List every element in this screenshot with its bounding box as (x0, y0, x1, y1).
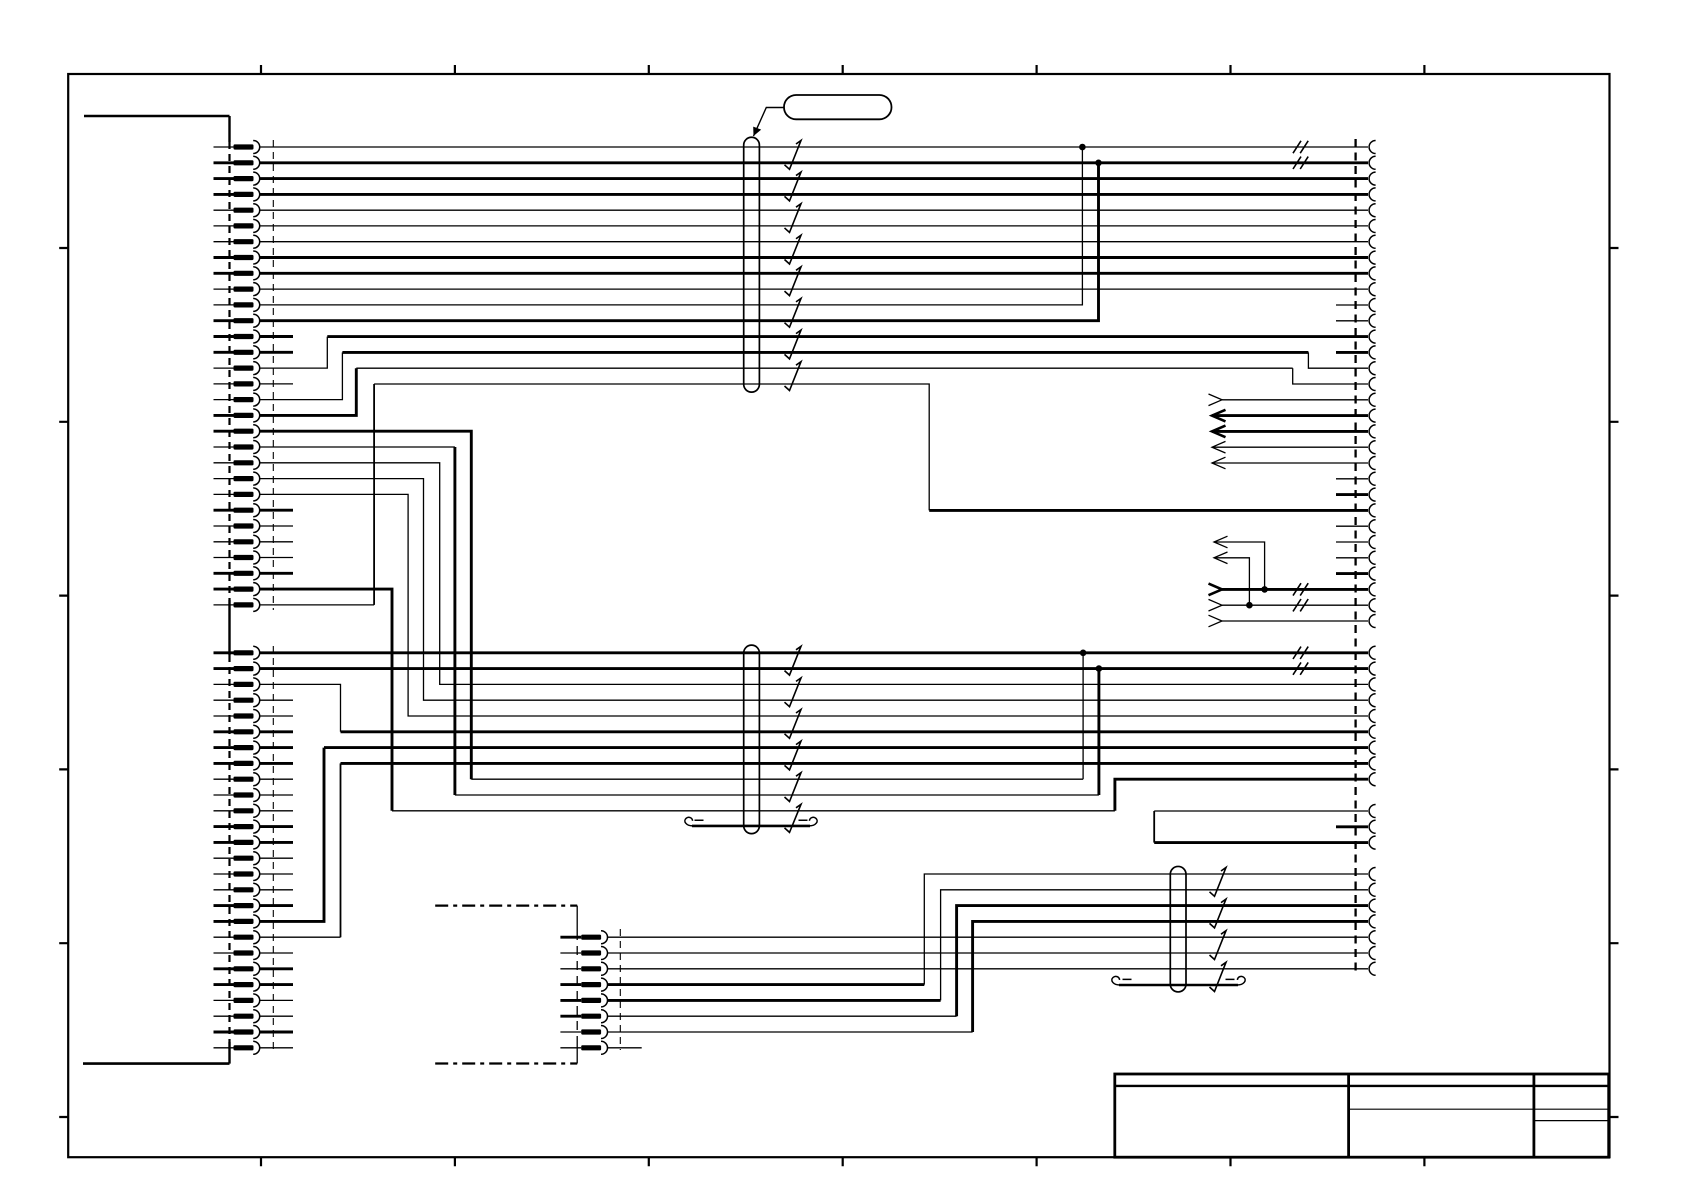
inner connector P3 contact line (dashed) (619, 929, 621, 1050)
right connector J2 contact A30 (1369, 599, 1376, 612)
wire (608, 983, 924, 986)
right connector J2 contact line (dashed) (1354, 139, 1356, 976)
wire (327, 335, 1368, 338)
twisted pair mark (785, 235, 802, 264)
left connector J1 pin 46 (214, 883, 260, 896)
off-page arrow (1212, 441, 1226, 453)
left connector J1 pin 54 (214, 1010, 260, 1023)
wire (1212, 430, 1368, 433)
left connector J1 pin 35 (214, 710, 260, 723)
shield box (dash-dot outline) (435, 906, 577, 1064)
wire (453, 447, 456, 795)
wire stub (260, 715, 293, 717)
left connector J1 pin 3 (214, 172, 260, 185)
wire (260, 936, 341, 938)
right connector J2 contact B6 (1369, 725, 1376, 738)
right connector J2 contact A25 (1369, 520, 1376, 533)
right connector J2 contact A16 (1369, 378, 1376, 391)
right connector J2 contact D1 (1369, 868, 1376, 881)
wire (1222, 588, 1368, 591)
right connector J2 contact A10 (1369, 283, 1376, 296)
cable label flag (784, 95, 892, 119)
wire (1153, 811, 1155, 843)
wire (1308, 352, 1368, 368)
wire (1222, 620, 1368, 622)
crossing mark (1293, 141, 1308, 153)
left connector J1 pin 6 (214, 219, 260, 232)
wire stub (260, 889, 293, 891)
left connector J1 pin 53 (214, 994, 260, 1007)
wire stub (260, 857, 293, 859)
right connector J2 contact A4 (1369, 188, 1376, 201)
right connector J2 contact A13 (1369, 330, 1376, 343)
wire (1154, 841, 1368, 844)
wire (260, 147, 1082, 305)
wire stub (260, 1047, 293, 1049)
wire (260, 272, 1368, 275)
wire (260, 479, 1368, 701)
wire (260, 225, 1368, 227)
left connector J1 pin 33 (214, 678, 260, 691)
right connector J2 contact A17 (1369, 393, 1376, 406)
twisted pair mark (785, 710, 802, 739)
left connector J1 pin 40 (214, 789, 260, 802)
wire stub (1336, 825, 1368, 828)
twisted pair mark (785, 741, 802, 770)
wire (608, 999, 941, 1002)
left connector J1 pin 25 (214, 520, 260, 533)
off-page arrow (1209, 599, 1223, 611)
inner connector P3 pin 8 (560, 1041, 607, 1054)
off-page arrow (1209, 615, 1223, 627)
wire stub (260, 572, 293, 575)
wire (260, 241, 1368, 243)
wire stub (260, 730, 293, 733)
wire (342, 351, 1308, 354)
wire (1214, 542, 1265, 589)
left connector J1 pin 48 (214, 915, 260, 928)
twisted pair mark (1210, 868, 1227, 897)
title block (1115, 1074, 1609, 1157)
wire stub (260, 746, 293, 749)
left connector J1 pin 12 (214, 314, 260, 327)
wire stub (260, 952, 293, 954)
junction (1096, 665, 1103, 672)
wire (260, 337, 327, 369)
left connector J1 pin 50 (214, 947, 260, 960)
wire stub (260, 794, 293, 796)
right connector J2 contact A15 (1369, 362, 1376, 375)
left connector J1 pin 55 (214, 1026, 260, 1039)
right connector J2 contact C3 (1369, 836, 1376, 849)
wire (260, 256, 1368, 259)
wire (260, 748, 324, 922)
off-page arrow (1214, 552, 1228, 564)
right connector J2 contact A21 (1369, 457, 1376, 470)
right connector J2 contact A27 (1369, 551, 1376, 564)
wire (260, 431, 471, 779)
left connector J1 pin 56 (214, 1041, 260, 1054)
right connector J2 contact B8 (1369, 757, 1376, 770)
wire (260, 667, 1368, 670)
right connector J2 contact A31 (1369, 615, 1376, 628)
wire stub (260, 904, 293, 907)
left connector J1 pin 37 (214, 741, 260, 754)
wire (260, 463, 1368, 685)
wire stub (1336, 351, 1368, 354)
wire (260, 368, 356, 415)
junction (1079, 144, 1086, 151)
right connector J2 contact A11 (1369, 299, 1376, 312)
left connector J1 pin 15 (214, 362, 260, 375)
cable bundle loop (middle) (744, 645, 760, 834)
wire (341, 730, 1369, 733)
wire (260, 146, 1368, 148)
right connector J2 contact C1 (1369, 805, 1376, 818)
left connector J1 pin 19 (214, 425, 260, 438)
wire (260, 163, 1099, 321)
wire stub (260, 351, 293, 354)
wire (356, 367, 1292, 369)
right connector J2 contact B1 (1369, 646, 1376, 659)
wire (1154, 810, 1368, 812)
twisted pair mark (1210, 931, 1227, 960)
left connector J1 pin 38 (214, 757, 260, 770)
right connector J2 contact C2 (1369, 820, 1375, 833)
left connector J1 pin 41 (214, 804, 260, 817)
wire stub (1336, 320, 1368, 322)
wire stub (260, 1015, 293, 1017)
wire (260, 494, 1368, 716)
right connector J2 contact A2 (1369, 156, 1376, 169)
left connector J1 body (83, 116, 230, 1064)
twisted pair mark (785, 646, 802, 675)
left connector J1 pin 52 (214, 978, 260, 991)
off-page arrow (1212, 410, 1226, 422)
right connector J2 contact D5 (1369, 931, 1376, 944)
cable clamp bar (middle) (685, 817, 817, 826)
left connector J1 pin 45 (214, 868, 260, 881)
wire (260, 604, 374, 606)
twisted pair mark (785, 773, 802, 802)
right connector J2 contact A18 (1369, 409, 1375, 422)
left connector J1 pin 39 (214, 773, 260, 786)
wire stub (260, 810, 293, 812)
right connector J2 contact B5 (1369, 710, 1376, 723)
wire stub (260, 983, 293, 986)
inner connector P3 pin 5 (560, 994, 607, 1007)
left connector J1 pin 27 (214, 551, 260, 564)
right connector J2 contact A28 (1369, 567, 1376, 580)
wire stub (260, 841, 293, 844)
wire (608, 936, 1368, 938)
wire (1115, 779, 1368, 811)
left connector J1 pin 21 (214, 456, 260, 469)
off-page arrow (1212, 426, 1226, 438)
wire (260, 589, 392, 811)
label leader arrow (753, 108, 784, 137)
wire (1097, 669, 1100, 795)
left connector J1 pin 30 (214, 598, 260, 611)
wire (260, 651, 1368, 654)
inner connector P3 pin 2 (560, 947, 607, 960)
right connector J2 contact A19 (1369, 425, 1376, 438)
left connector J1 pin 24 (214, 504, 260, 517)
junction (1246, 602, 1253, 609)
wire (1214, 558, 1249, 605)
wire stub (1336, 572, 1368, 575)
left connector J1 pin 5 (214, 204, 260, 217)
wire (929, 509, 1368, 512)
wire (392, 810, 1115, 812)
inner connector P3 pin 7 (560, 1026, 607, 1039)
wire (1293, 368, 1368, 384)
left connector J1 pin 29 (214, 583, 260, 596)
wire stub (260, 967, 293, 970)
junction (1080, 650, 1087, 657)
wire stub (260, 509, 293, 512)
wire (1082, 653, 1084, 779)
right connector J2 contact A22 (1369, 472, 1376, 485)
wire (260, 209, 1368, 211)
right connector J2 contact B2 (1369, 662, 1376, 675)
right connector J2 contact A6 (1369, 220, 1376, 233)
wire (324, 746, 1368, 749)
wire stub (260, 999, 293, 1001)
left connector J1 pin 22 (214, 472, 260, 485)
twisted pair mark (785, 330, 802, 359)
cable clamp bar (bottom) (1112, 976, 1245, 985)
wire (973, 921, 1368, 1032)
junction (1261, 586, 1268, 593)
off-page arrow (1214, 536, 1228, 548)
right connector J2 contact D7 (1369, 962, 1376, 975)
wire stub (1336, 525, 1368, 527)
crossing mark (1293, 157, 1308, 169)
left connector J1 pin 18 (214, 409, 260, 422)
wire (260, 161, 1368, 164)
left connector J1 pin 28 (214, 567, 260, 580)
twisted pair mark (785, 267, 802, 296)
left connector J1 pin 9 (214, 267, 260, 280)
wire stub (260, 557, 293, 559)
inner connector P3 pin 4 (560, 978, 607, 991)
twisted pair mark (785, 362, 802, 391)
inner connector P3 pin 3 (560, 962, 607, 975)
wire (260, 446, 455, 448)
wire (341, 762, 1369, 765)
wire stub (1336, 478, 1368, 480)
wire stub (260, 541, 293, 543)
wire (374, 384, 929, 510)
wire (608, 1031, 973, 1033)
wire (260, 684, 341, 731)
right connector J2 contact A1 (1369, 141, 1376, 154)
wire (260, 352, 342, 399)
cable bundle loop (bottom right) (1170, 866, 1186, 992)
wire (1222, 604, 1368, 606)
right connector J2 contact B4 (1369, 694, 1376, 707)
junction (1095, 160, 1102, 167)
wire stub (260, 525, 293, 527)
left connector J1 pin 49 (214, 931, 260, 944)
wire (455, 794, 1099, 796)
wire (260, 288, 1368, 290)
wire stub (260, 699, 293, 701)
right connector J2 contact D2 (1369, 883, 1376, 896)
wire (608, 968, 1368, 970)
wire (608, 952, 1368, 954)
right connector J2 contact A29 (1369, 583, 1376, 596)
right connector J2 contact A3 (1369, 172, 1376, 185)
twisted pair mark (1210, 962, 1227, 991)
wire (260, 193, 1368, 196)
left connector J1 pin 17 (214, 393, 260, 406)
left connector J1 pin 8 (214, 251, 260, 264)
wire stub (1336, 304, 1368, 306)
wire (608, 1015, 957, 1017)
left connector J1 pin 44 (214, 852, 260, 865)
twisted pair mark (785, 678, 802, 707)
off-page arrow (1212, 457, 1226, 469)
wire stub (260, 825, 293, 828)
right connector J2 contact A14 (1369, 346, 1376, 359)
right connector J2 contact B9 (1369, 773, 1376, 786)
left connector J1 pin 14 (214, 346, 260, 359)
left connector J1 pin 51 (214, 962, 260, 975)
right connector J2 contact A5 (1369, 204, 1376, 217)
left connector J1 pin 20 (214, 441, 260, 454)
wire (471, 778, 1083, 780)
right connector J2 contact B3 (1369, 678, 1376, 691)
wire stub (260, 873, 293, 875)
wire (957, 906, 1368, 1017)
wire (1212, 462, 1368, 464)
twisted pair mark (785, 804, 802, 832)
wire (1212, 414, 1368, 417)
right connector J2 contact D3 (1369, 899, 1376, 912)
right connector J2 contact D4 (1369, 915, 1376, 928)
wire (924, 874, 1368, 985)
left connector J1 pin 26 (214, 535, 260, 548)
left connector J1 pin 2 (214, 156, 260, 169)
twisted pair mark (785, 298, 802, 327)
wire stub (260, 335, 293, 338)
wire stub (260, 762, 293, 765)
inner connector P3 pin 1 (560, 931, 607, 944)
wire (941, 890, 1368, 1001)
wire stub (260, 383, 293, 385)
right connector J2 contact A20 (1369, 441, 1376, 454)
wire (373, 384, 375, 605)
left connector J1 pin 47 (214, 899, 260, 912)
left connector J1 pin 36 (214, 725, 260, 738)
right connector J2 contact A12 (1369, 314, 1376, 327)
twisted pair mark (785, 141, 802, 170)
left connector J1 pin 1 (214, 141, 260, 154)
wire (1222, 399, 1368, 401)
right connector J2 contact B7 (1369, 741, 1376, 754)
cable bundle loop (top) (744, 137, 760, 392)
left connector J1 pin 31 (214, 646, 260, 659)
wire stub (608, 1047, 642, 1049)
left connector J1 pin 23 (214, 488, 260, 501)
right connector J2 contact A9 (1369, 267, 1376, 280)
crossing mark (1293, 662, 1308, 674)
wire (1212, 446, 1368, 448)
twisted pair mark (1210, 899, 1227, 928)
right connector J2 contact D6 (1369, 947, 1376, 960)
wire stub (260, 1031, 293, 1034)
inner connector P3 pin 6 (560, 1010, 607, 1023)
wire stub (1336, 541, 1368, 543)
left connector J1 contact line (dashed) (272, 140, 274, 1052)
left connector J1 pin 43 (214, 836, 260, 849)
right connector J2 contact A7 (1369, 235, 1376, 248)
twisted pair mark (785, 172, 802, 201)
wire (260, 177, 1368, 180)
wire stub (1336, 493, 1368, 496)
crossing mark (1293, 647, 1308, 659)
left connector J1 pin 16 (214, 377, 260, 390)
wire stub (260, 778, 293, 780)
left connector J1 pin 42 (214, 820, 260, 833)
off-page arrow (1209, 394, 1223, 406)
twisted pair mark (785, 204, 802, 233)
left connector J1 pin 34 (214, 694, 260, 707)
left connector J1 pin 7 (214, 235, 260, 248)
left connector J1 pin 11 (214, 298, 260, 311)
wire (340, 763, 342, 937)
right connector J2 contact A26 (1369, 536, 1376, 549)
crossing mark (1293, 583, 1308, 595)
left connector J1 pin 32 (214, 662, 260, 675)
left connector J1 pin 13 (214, 330, 260, 343)
right connector J2 contact A24 (1369, 504, 1376, 517)
right connector J2 contact A8 (1369, 251, 1376, 264)
left connector J1 pin 10 (214, 283, 260, 296)
left connector J1 pin 4 (214, 188, 260, 201)
right connector J2 contact A23 (1369, 488, 1376, 501)
off-page arrow (1209, 584, 1223, 596)
wire stub (1336, 557, 1368, 559)
crossing mark (1293, 599, 1308, 611)
